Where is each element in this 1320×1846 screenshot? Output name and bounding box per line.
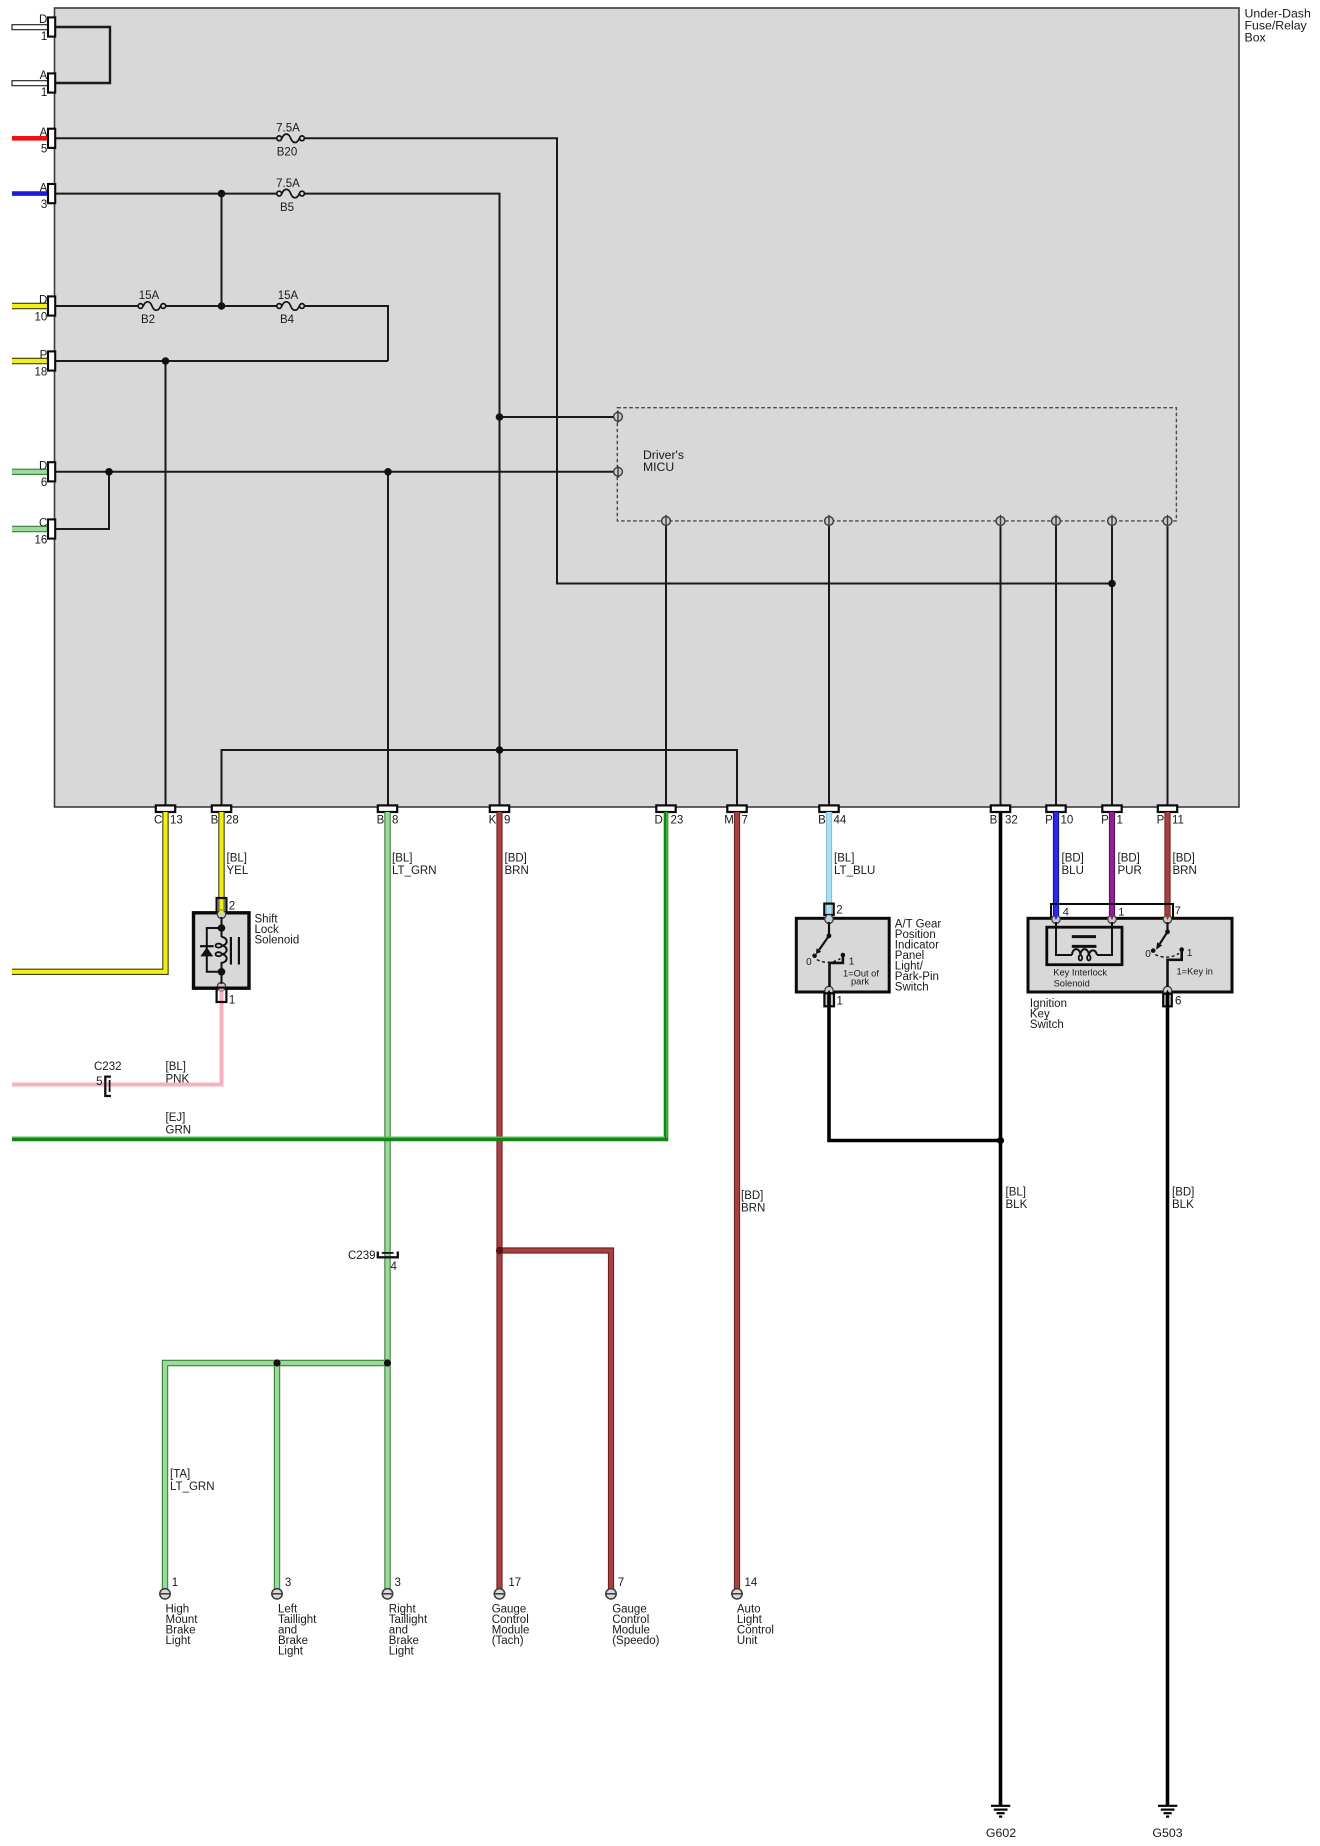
junction node B20 feed/P1 line	[1108, 580, 1116, 588]
svg-text:[BD]: [BD]	[1173, 853, 1195, 865]
wire MICU to pin B32	[1000, 521, 1002, 806]
ignition key switch output path	[1168, 950, 1182, 987]
MICU terminal bottom P11	[1163, 515, 1172, 527]
svg-text:14: 14	[745, 1577, 758, 1589]
svg-text:32: 32	[1005, 815, 1018, 827]
pin A3	[48, 184, 55, 203]
svg-text:[BD]: [BD]	[741, 1190, 763, 1202]
svg-text:1: 1	[1118, 907, 1124, 919]
svg-text:[TA]: [TA]	[170, 1469, 190, 1481]
pin M7	[727, 805, 746, 812]
svg-text:15A: 15A	[139, 290, 160, 302]
svg-text:Unit: Unit	[737, 1635, 758, 1647]
svg-text:BRN: BRN	[741, 1202, 765, 1214]
wire external light-green lead to pin D6	[12, 469, 48, 475]
svg-text:5: 5	[41, 144, 47, 156]
svg-text:Box: Box	[1245, 31, 1267, 45]
A/T gear switch output path	[830, 955, 843, 987]
svg-text:[BL]: [BL]	[1006, 1187, 1026, 1199]
svg-text:7.5A: 7.5A	[276, 178, 300, 190]
ignition key switch lever	[1160, 922, 1168, 944]
svg-text:PUR: PUR	[1118, 865, 1142, 877]
junction node A3/B5 tap	[218, 190, 226, 198]
svg-text:1: 1	[1117, 815, 1123, 827]
wire external white lead to pin D1	[12, 25, 48, 30]
svg-text:Switch: Switch	[895, 981, 929, 993]
svg-text:BLK: BLK	[1172, 1199, 1194, 1211]
ground G602	[991, 1806, 1010, 1817]
connector C239	[378, 1252, 398, 1258]
svg-text:[BL]: [BL]	[166, 1061, 186, 1073]
wire brown P11 to ignition key switch	[1164, 812, 1170, 920]
svg-text:0: 0	[806, 957, 812, 968]
wire light-green branch to high mount and left taillight	[165, 1363, 388, 1589]
pin B28	[212, 805, 231, 812]
pin A5	[48, 129, 55, 148]
wire external yellow lead to pin P18	[12, 358, 48, 364]
svg-text:G602: G602	[986, 1826, 1016, 1840]
ignition key switch pin 6	[1163, 994, 1172, 1007]
terminal auto light control unit	[731, 1589, 743, 1599]
svg-text:[BL]: [BL]	[392, 853, 412, 865]
svg-text:7: 7	[1175, 905, 1181, 917]
MICU terminal bottom B32	[996, 515, 1005, 527]
svg-text:1: 1	[849, 956, 855, 967]
wire external white lead to pin A1	[12, 81, 48, 86]
svg-text:PNK: PNK	[166, 1073, 190, 1085]
ground G503	[1158, 1806, 1177, 1817]
pin D6	[48, 462, 55, 481]
wire MICU to pin B44	[828, 521, 830, 806]
svg-text:D: D	[39, 461, 47, 473]
svg-text:BLU: BLU	[1062, 865, 1084, 877]
svg-text:3: 3	[285, 1577, 291, 1589]
wire branch to MICU terminal 1	[500, 416, 615, 418]
svg-text:A: A	[40, 127, 48, 139]
shift lock solenoid node top	[218, 924, 226, 932]
terminal high mount brake light	[159, 1589, 171, 1599]
ignition key switch connector strip	[1051, 904, 1173, 918]
svg-text:P: P	[1101, 815, 1109, 827]
svg-text:LT_GRN: LT_GRN	[392, 865, 437, 877]
pin P11	[1158, 805, 1177, 812]
wire black from A/T gear switch to B32 line	[829, 1006, 1001, 1141]
svg-text:(Tach): (Tach)	[492, 1635, 524, 1647]
svg-text:2: 2	[229, 900, 235, 912]
pin C13	[156, 805, 175, 812]
svg-text:Light: Light	[166, 1635, 192, 1647]
svg-text:B2: B2	[141, 314, 155, 326]
svg-text:BRN: BRN	[1173, 865, 1197, 877]
wire row D10 through fuses B2 and B4 then down to P18 row	[55, 306, 388, 361]
svg-text:16: 16	[35, 534, 48, 546]
svg-text:23: 23	[671, 815, 684, 827]
junction node black wires	[997, 1137, 1004, 1144]
svg-text:10: 10	[35, 311, 48, 323]
pin B8	[378, 805, 397, 812]
wire external blue lead to pin A3	[12, 191, 48, 196]
svg-text:1: 1	[41, 87, 47, 99]
wire brown K9 down to gauge control module tach	[496, 812, 502, 1589]
svg-text:15A: 15A	[278, 290, 299, 302]
svg-text:2: 2	[836, 904, 842, 916]
ignition key switch terminal 4	[1052, 915, 1060, 923]
ignition key switch terminal 1	[1108, 915, 1116, 923]
svg-text:10: 10	[1061, 815, 1074, 827]
svg-text:(Speedo): (Speedo)	[612, 1635, 659, 1647]
A/T gear switch lever	[819, 922, 829, 950]
shift lock solenoid terminal top	[217, 910, 225, 918]
key interlock solenoid box	[1047, 927, 1122, 965]
pin B32	[991, 805, 1010, 812]
svg-text:1=Key in: 1=Key in	[1177, 966, 1213, 976]
svg-text:C239: C239	[348, 1250, 376, 1262]
svg-text:18: 18	[35, 366, 48, 378]
MICU terminal bottom P10	[1052, 515, 1061, 527]
svg-text:Light: Light	[278, 1646, 304, 1658]
MICU terminal bottom D23	[662, 515, 671, 527]
connector C232	[105, 1077, 111, 1096]
svg-text:MICU: MICU	[643, 460, 674, 474]
svg-text:YEL: YEL	[227, 865, 249, 877]
svg-text:BLK: BLK	[1006, 1199, 1028, 1211]
fuse B2 15A	[138, 302, 166, 310]
svg-text:1: 1	[41, 31, 47, 43]
svg-text:C232: C232	[94, 1061, 122, 1073]
pin D10	[48, 296, 55, 315]
svg-text:D: D	[654, 815, 662, 827]
terminal left taillight	[271, 1589, 283, 1599]
svg-text:M: M	[724, 815, 734, 827]
svg-text:[BD]: [BD]	[1118, 853, 1140, 865]
svg-text:44: 44	[834, 815, 847, 827]
svg-text:[BD]: [BD]	[1062, 853, 1084, 865]
wire MICU to pin P11	[1167, 521, 1169, 806]
shift lock solenoid node bottom	[218, 968, 226, 976]
svg-text:11: 11	[1172, 815, 1184, 827]
svg-text:B: B	[990, 815, 998, 827]
terminal right taillight	[382, 1589, 394, 1599]
wire pin B28 up across to pin M7	[222, 750, 738, 806]
wire row A3 through fuse B5 then down to pin K9	[55, 194, 500, 806]
svg-text:7.5A: 7.5A	[276, 123, 300, 135]
terminal gauge control module speedo	[605, 1589, 617, 1599]
wire loop pin D1 to pin A1	[55, 27, 110, 83]
svg-text:1: 1	[1187, 948, 1193, 959]
svg-text:B: B	[818, 815, 826, 827]
ignition key switch terminal 7	[1163, 915, 1171, 923]
junction node BRN branch	[496, 1247, 503, 1254]
Under-Dash Fuse/Relay Box (fuse box outline)	[55, 8, 1240, 807]
wire yellow B28 to shift lock solenoid pin 2	[218, 812, 224, 912]
svg-text:Switch: Switch	[1030, 1019, 1064, 1031]
wire external yellow lead to pin D10	[12, 303, 48, 309]
shift lock solenoid pin 1	[217, 988, 227, 1002]
svg-text:7: 7	[742, 815, 748, 827]
shift lock solenoid box	[194, 913, 250, 988]
junction node D6/C16	[105, 468, 113, 476]
MICU terminal bottom B44	[825, 515, 834, 527]
ignition key switch contact 0	[1151, 948, 1156, 953]
svg-text:4: 4	[1063, 907, 1069, 919]
wire blue P10 to ignition key switch	[1053, 812, 1059, 920]
wire light-blue B44 to A/T gear switch pin 2	[826, 812, 832, 918]
svg-text:C: C	[154, 815, 162, 827]
A/T gear switch contact 1	[841, 953, 846, 958]
svg-text:[BL]: [BL]	[834, 853, 854, 865]
svg-text:G503: G503	[1152, 1826, 1182, 1840]
svg-text:Solenoid: Solenoid	[1054, 979, 1090, 989]
MICU terminal left 2	[614, 466, 623, 478]
svg-text:[BD]: [BD]	[505, 853, 527, 865]
junction node LT_GRN at right taillight	[384, 1359, 391, 1366]
shift lock solenoid coil	[222, 937, 227, 963]
wire row C16 up to D6 row	[55, 472, 109, 529]
svg-text:1: 1	[172, 1577, 178, 1589]
svg-text:D: D	[39, 295, 47, 307]
svg-text:B5: B5	[280, 202, 294, 214]
wire purple P1 to ignition key switch	[1109, 812, 1115, 920]
Driver's MICU dashed box	[617, 408, 1176, 521]
svg-text:park: park	[851, 976, 869, 986]
key interlock solenoid core bars	[1072, 937, 1097, 947]
svg-text:28: 28	[226, 815, 239, 827]
pin D23	[656, 805, 675, 812]
wire drop P18 row to pin C13	[165, 361, 167, 806]
pin P10	[1046, 805, 1065, 812]
svg-text:9: 9	[504, 815, 510, 827]
svg-text:6: 6	[41, 477, 47, 489]
pin D1	[48, 17, 55, 36]
svg-text:K: K	[489, 815, 497, 827]
wire blue through strip	[1053, 905, 1059, 920]
svg-text:Solenoid: Solenoid	[255, 934, 300, 946]
A/T gear switch contact 0	[812, 954, 817, 959]
wire green D23 to left edge EJ GRN	[12, 812, 666, 1139]
svg-text:Key Interlock: Key Interlock	[1053, 967, 1107, 977]
wire external red lead to pin A5	[12, 136, 48, 141]
shift lock solenoid internal wiring	[207, 917, 222, 984]
svg-text:[EJ]: [EJ]	[166, 1112, 186, 1124]
svg-text:8: 8	[392, 815, 398, 827]
ignition key switch contact 1	[1179, 947, 1184, 952]
pin P18	[48, 351, 55, 370]
svg-text:0: 0	[1145, 949, 1151, 960]
A/T gear position switch box	[796, 918, 889, 992]
pin A1	[48, 73, 55, 92]
fuse B4 15A	[277, 302, 305, 310]
svg-text:GRN: GRN	[166, 1124, 192, 1136]
shift lock solenoid diode	[200, 945, 214, 947]
svg-text:D: D	[39, 14, 47, 26]
svg-text:7: 7	[618, 1577, 624, 1589]
svg-text:P: P	[1157, 815, 1165, 827]
wire black P11 side down to ground G503	[1166, 1006, 1170, 1805]
wire MICU to pin D23	[665, 521, 667, 806]
svg-text:P: P	[40, 350, 48, 362]
svg-text:[BL]: [BL]	[227, 853, 247, 865]
fuse B5 7.5A	[277, 189, 305, 197]
ignition key switch dashed travel arc	[1155, 953, 1179, 957]
pin B44	[819, 805, 838, 812]
wire pink from shift lock solenoid pin 1 to left edge	[12, 988, 222, 1085]
svg-text:LT_BLU: LT_BLU	[834, 865, 875, 877]
wire MICU to pin P10	[1055, 521, 1057, 806]
svg-text:A: A	[40, 182, 48, 194]
MICU terminal left 1	[614, 411, 623, 423]
A/T gear switch terminal bottom	[825, 986, 833, 994]
svg-text:[BD]: [BD]	[1172, 1187, 1194, 1199]
junction node P18/C13	[162, 357, 170, 365]
key interlock solenoid wiring	[1056, 922, 1112, 955]
ignition key switch terminal 6	[1163, 986, 1171, 994]
svg-text:P: P	[1045, 815, 1053, 827]
svg-text:B20: B20	[277, 147, 297, 159]
wire light-green B8 down to right taillight	[384, 812, 390, 1589]
ignition key switch box	[1028, 918, 1232, 992]
fuse B20 7.5A	[277, 134, 305, 142]
svg-text:1: 1	[837, 996, 843, 1008]
svg-text:5: 5	[96, 1076, 102, 1088]
wire row A5 through fuse B20 then down and right to MICU P1 line	[55, 138, 1112, 583]
junction node K9/MICU branch	[496, 413, 504, 421]
key interlock solenoid coil	[1072, 949, 1097, 955]
wire black B32 down to ground G602	[999, 812, 1003, 1805]
svg-text:3: 3	[395, 1577, 401, 1589]
pin C16	[48, 519, 55, 538]
A/T gear switch pin 2	[824, 904, 833, 915]
junction node K9/B28-M7 row	[496, 746, 504, 754]
svg-text:LT_GRN: LT_GRN	[170, 1481, 215, 1493]
wire drop D6 row to pin B8	[387, 472, 389, 806]
A/T gear switch terminal top	[825, 915, 833, 923]
svg-text:B: B	[211, 815, 219, 827]
svg-text:A: A	[40, 70, 48, 82]
svg-text:1: 1	[229, 994, 235, 1006]
junction node on D10 row	[218, 302, 226, 310]
wire external light-green lead to pin C16	[12, 526, 48, 532]
MICU terminal bottom P1	[1108, 515, 1117, 527]
shift lock solenoid terminal bottom	[217, 982, 225, 990]
junction node LT_GRN at left taillight	[273, 1359, 280, 1366]
svg-text:13: 13	[170, 815, 183, 827]
svg-text:B4: B4	[280, 314, 295, 326]
svg-text:B: B	[377, 815, 385, 827]
wire brown through strip	[1164, 905, 1170, 920]
A/T gear switch pin 1	[824, 993, 834, 1006]
wire yellow C13 to left edge	[12, 812, 166, 972]
shift lock solenoid pin 2	[217, 898, 227, 913]
wire link A3 row to D10 row	[221, 194, 223, 306]
wire brown M7 down to auto light control unit	[734, 812, 740, 1589]
terminal gauge control module tach	[494, 1589, 506, 1599]
svg-text:4: 4	[391, 1261, 398, 1273]
svg-text:17: 17	[508, 1577, 521, 1589]
svg-text:C: C	[39, 518, 47, 530]
wire brown branch to gauge control module speedo	[500, 1251, 612, 1590]
wire row P18	[55, 360, 388, 362]
pin K9	[490, 805, 509, 812]
wire MICU to pin P1	[1111, 521, 1113, 806]
pin P1	[1102, 805, 1121, 812]
shift lock solenoid plunger	[231, 937, 239, 965]
wire row D6 to MICU terminal 2	[55, 471, 614, 473]
svg-text:BRN: BRN	[505, 865, 529, 877]
svg-text:Light: Light	[389, 1646, 415, 1658]
svg-text:6: 6	[1175, 996, 1181, 1008]
A/T gear switch dashed travel arc	[817, 959, 841, 963]
junction node D6/B8	[384, 468, 392, 476]
svg-text:3: 3	[41, 199, 47, 211]
wire purple through strip	[1109, 905, 1115, 920]
